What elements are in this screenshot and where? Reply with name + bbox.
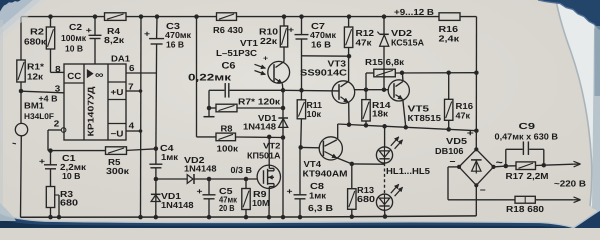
svg-text:+: + (86, 26, 92, 35)
svg-text:18к: 18к (372, 109, 389, 119)
svg-text:R10: R10 (259, 26, 278, 36)
svg-text:6: 6 (129, 63, 135, 73)
svg-text:22к: 22к (260, 36, 278, 46)
svg-text:1N4148: 1N4148 (161, 200, 194, 210)
svg-text:C6: C6 (222, 59, 236, 70)
svg-text:+U: +U (111, 87, 124, 97)
svg-text:1мк: 1мк (161, 152, 179, 162)
svg-text:+: + (288, 25, 294, 34)
svg-text:1N4148: 1N4148 (243, 122, 276, 132)
svg-text:VT4: VT4 (304, 159, 322, 169)
svg-text:+: + (197, 187, 203, 196)
svg-text:BM1: BM1 (24, 101, 44, 111)
svg-text:VT5: VT5 (408, 104, 430, 114)
svg-text:0,22мк: 0,22мк (188, 73, 231, 84)
svg-text:0/3 В: 0/3 В (231, 165, 253, 175)
svg-text:+: + (467, 128, 474, 138)
svg-text:+9...12 В: +9...12 В (394, 7, 434, 17)
svg-text:16 В: 16 В (166, 40, 184, 50)
svg-text:∞: ∞ (95, 70, 104, 81)
svg-text:КС515А: КС515А (391, 38, 425, 48)
svg-text:10М: 10М (252, 198, 270, 208)
svg-text:DA1: DA1 (111, 54, 130, 64)
svg-text:47к: 47к (356, 37, 373, 47)
svg-text:100мк: 100мк (61, 33, 87, 43)
svg-text:КТ940АМ: КТ940АМ (303, 169, 348, 179)
svg-text:−U: −U (111, 128, 124, 138)
svg-text:+: + (287, 187, 293, 196)
svg-text:КР1407УД: КР1407УД (86, 86, 96, 136)
svg-text:C9: C9 (519, 121, 536, 131)
svg-text:R15 6,8к: R15 6,8к (365, 57, 405, 67)
svg-text:10 В: 10 В (62, 171, 81, 181)
svg-text:100к: 100к (217, 144, 239, 154)
svg-text:+: + (263, 55, 268, 62)
svg-text:0,47мк x 630 В: 0,47мк x 630 В (495, 132, 559, 142)
svg-text:−: − (450, 156, 456, 166)
svg-text:~: ~ (496, 157, 504, 169)
svg-text:R6 430: R6 430 (213, 25, 243, 35)
svg-text:R2: R2 (30, 27, 44, 37)
svg-text:3: 3 (55, 84, 61, 94)
svg-text:−: − (480, 185, 486, 195)
svg-text:10к: 10к (307, 109, 322, 119)
svg-text:680: 680 (60, 198, 78, 208)
svg-text:2: 2 (54, 119, 60, 129)
svg-text:R17 2,2М: R17 2,2М (506, 171, 549, 181)
svg-text:+: + (39, 157, 45, 166)
svg-text:L–51P3C: L–51P3C (216, 48, 258, 58)
svg-text:+: + (144, 30, 150, 39)
svg-text:300к: 300к (106, 166, 130, 176)
svg-text:2,4к: 2,4к (439, 34, 460, 44)
svg-text:1мк: 1мк (309, 190, 327, 200)
svg-text:R8: R8 (221, 123, 233, 133)
svg-text:12к: 12к (27, 71, 44, 81)
svg-text:VT2: VT2 (263, 141, 281, 150)
svg-text:VT1: VT1 (240, 38, 258, 48)
svg-text:R18 680: R18 680 (506, 204, 544, 214)
svg-text:8,2к: 8,2к (104, 35, 125, 45)
svg-text:КП501А: КП501А (247, 150, 281, 160)
svg-text:H34L0F: H34L0F (24, 112, 54, 121)
svg-text:10 В: 10 В (65, 43, 83, 53)
svg-text:680: 680 (357, 194, 375, 204)
svg-text:8: 8 (55, 64, 61, 74)
svg-text:R7* 120к: R7* 120к (238, 97, 281, 107)
svg-text:КТ8515: КТ8515 (408, 113, 442, 123)
svg-text:CC: CC (67, 71, 82, 81)
svg-text:DB106: DB106 (435, 146, 464, 156)
svg-text:680к: 680к (24, 37, 47, 47)
svg-text:4: 4 (129, 120, 135, 130)
svg-text:HL1...HL5: HL1...HL5 (386, 166, 430, 176)
svg-text:SS9014C: SS9014C (300, 67, 348, 77)
svg-text:47к: 47к (456, 110, 471, 120)
svg-text:R1*: R1* (27, 62, 45, 72)
svg-text:~220 В: ~220 В (554, 179, 586, 189)
svg-text:20 В: 20 В (219, 203, 235, 213)
svg-text:1N4148: 1N4148 (184, 164, 217, 174)
svg-text:VD5: VD5 (446, 136, 467, 146)
svg-text:C2: C2 (69, 22, 82, 32)
svg-text:16 В: 16 В (311, 39, 331, 49)
svg-text:6,3 В: 6,3 В (308, 203, 333, 213)
svg-text:7: 7 (128, 82, 134, 92)
